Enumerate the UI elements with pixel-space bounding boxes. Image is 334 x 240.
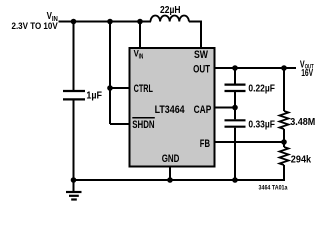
svg-text:OUT: OUT <box>193 63 210 75</box>
svg-text:GND: GND <box>162 153 180 165</box>
junction dot ground left <box>71 177 77 183</box>
junction dot FB divider <box>281 139 287 145</box>
junction dot GND pin <box>167 177 173 183</box>
svg-text:294k: 294k <box>291 155 312 166</box>
svg-text:2.3V TO 10V: 2.3V TO 10V <box>12 21 58 31</box>
IC U1 LT3464 body <box>130 48 215 167</box>
svg-text:16V: 16V <box>301 68 313 79</box>
svg-text:CAP: CAP <box>194 104 212 116</box>
wire FB to divider <box>214 141 284 143</box>
wire ground rail <box>74 179 286 181</box>
junction dot cap branch ground <box>232 177 238 183</box>
junction dot OUT resistor branch <box>281 65 287 71</box>
junction dot CTRL <box>107 85 113 91</box>
capacitor C1 1uF <box>63 22 102 181</box>
wire CTRL/SHDN tie to VIN <box>110 22 130 125</box>
ground symbol <box>66 180 82 200</box>
resistor R2 294k <box>280 142 312 181</box>
svg-text:0.33µF: 0.33µF <box>248 120 275 131</box>
inductor L1 22uH <box>151 5 189 22</box>
svg-text:FB: FB <box>200 138 210 150</box>
svg-text:SHDN: SHDN <box>132 119 154 131</box>
svg-text:1µF: 1µF <box>86 91 102 102</box>
svg-text:LT3464: LT3464 <box>155 104 186 116</box>
wire OUT to VOUT <box>214 67 296 69</box>
pin label VIN <box>134 48 144 60</box>
wire GND pin drop <box>169 166 171 180</box>
svg-text:22µH: 22µH <box>160 5 181 16</box>
wire VIN top rail <box>59 21 152 23</box>
junction dot VIN pin <box>137 19 143 25</box>
svg-text:0.22µF: 0.22µF <box>248 83 275 94</box>
junction dot CAP <box>232 105 238 111</box>
node VIN input label <box>12 11 58 31</box>
wire CAP pin <box>214 107 235 109</box>
wire VIN pin drop <box>139 22 141 49</box>
capacitor C3 0.33uF <box>225 108 275 181</box>
capacitor C2 0.22uF <box>225 68 275 108</box>
junction dot OUT cap branch <box>232 65 238 71</box>
junction dot input cap <box>71 19 77 25</box>
wire SW pin drop <box>189 22 201 49</box>
pin label SHDN with overline <box>132 118 155 131</box>
svg-text:3.48M: 3.48M <box>290 117 315 128</box>
svg-text:SW: SW <box>194 49 208 61</box>
svg-text:IN: IN <box>139 51 144 60</box>
node VOUT label <box>300 60 314 80</box>
junction dot ctrl branch <box>107 19 113 25</box>
svg-text:3464 TA01a: 3464 TA01a <box>259 184 288 191</box>
resistor R1 3.48M <box>280 68 316 142</box>
svg-text:CTRL: CTRL <box>134 83 153 95</box>
